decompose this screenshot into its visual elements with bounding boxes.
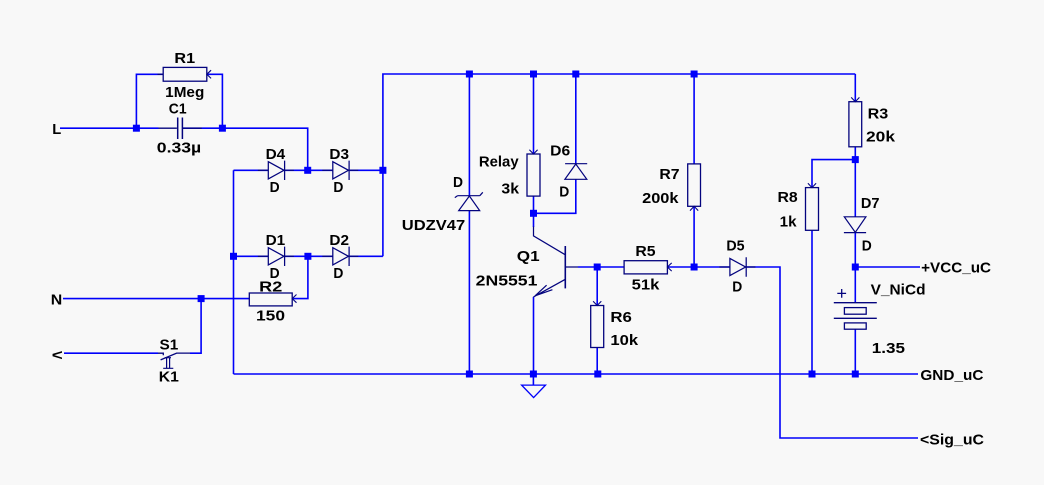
wire D4 anode [234, 169, 269, 171]
svg-text:Relay: Relay [479, 153, 519, 170]
svg-text:<: < [52, 347, 63, 364]
wire D1 anode [234, 255, 269, 257]
node L-R1 left [133, 125, 140, 132]
svg-text:D5: D5 [726, 237, 744, 254]
wire relay bottom [533, 196, 535, 213]
node N-S1 [198, 295, 205, 302]
svg-text:R5: R5 [635, 243, 655, 260]
svg-text:<Sig_uC: <Sig_uC [920, 432, 984, 449]
wire R5 to D5 [667, 266, 730, 268]
relay K1 actuator [163, 358, 173, 369]
wire right vertical and top bus [383, 74, 855, 256]
svg-text:N: N [51, 291, 63, 308]
svg-text:2N5551: 2N5551 [476, 273, 538, 290]
svg-text:R2: R2 [259, 279, 282, 296]
wire N row [63, 298, 249, 300]
svg-text:51k: 51k [632, 276, 661, 293]
wire to R8 top [812, 160, 855, 188]
resistor R6 body [591, 306, 604, 348]
wire collector stub [533, 213, 535, 227]
svg-text:Q1: Q1 [517, 248, 540, 265]
wire R6 top [596, 267, 598, 306]
node gnd R8 [809, 371, 816, 378]
battery V_NiCd [834, 303, 877, 319]
wire R7 bottom [693, 206, 695, 267]
svg-text:200k: 200k [642, 190, 679, 207]
svg-text:10k: 10k [610, 332, 638, 349]
wire GND rail [234, 373, 919, 375]
svg-text:D1: D1 [266, 232, 286, 249]
diode D3 [322, 161, 358, 180]
diode D7 [844, 217, 866, 233]
svg-text:D4: D4 [266, 146, 286, 163]
svg-text:150: 150 [256, 308, 285, 325]
svg-text:D3: D3 [329, 146, 349, 163]
node D4-D3 mid [304, 167, 311, 174]
zener diode D UDZV47 [455, 192, 483, 210]
node D1-D2 mid [304, 253, 311, 260]
transistor Q1 [564, 246, 566, 288]
relay coil Relay 3k body [527, 154, 540, 196]
node bus R7 [691, 71, 698, 78]
wire D4 to D3 [285, 169, 333, 171]
svg-text:1.35: 1.35 [872, 340, 905, 357]
wire D7 to VCC node [854, 233, 856, 268]
node gnd emitter [530, 371, 537, 378]
svg-text:D7: D7 [861, 195, 880, 212]
node gnd zener [466, 371, 473, 378]
svg-text:C1: C1 [169, 101, 187, 118]
svg-text:V_NiCd: V_NiCd [871, 281, 926, 298]
svg-text:R1: R1 [174, 50, 195, 67]
wire R3 bottom to D7 [854, 147, 856, 217]
node bus D6 [572, 71, 579, 78]
resistor R3 arrow [851, 97, 859, 101]
node C1-R1 right [219, 125, 226, 132]
svg-text:D: D [270, 179, 280, 196]
resistor R1 body [163, 67, 207, 81]
node R3-R8-D7 [852, 156, 859, 163]
resistor R5 arrow [667, 263, 671, 271]
wire L row left [60, 127, 159, 129]
resistor R5 body [624, 261, 667, 274]
wire D6 bottom to collector node [534, 179, 576, 213]
svg-text:20k: 20k [866, 128, 896, 145]
svg-text:0.33µ: 0.33µ [157, 140, 201, 157]
node bus zener [466, 71, 473, 78]
ground [522, 385, 546, 398]
svg-text:D: D [453, 174, 463, 191]
svg-text:D2: D2 [329, 232, 349, 249]
node gnd R6 [594, 371, 601, 378]
resistor R8 arrow [808, 183, 816, 187]
resistor R6 arrow [593, 301, 601, 305]
diode D1 [258, 247, 294, 266]
wire L row right to D4 junction [183, 128, 308, 170]
node D3 out [379, 167, 386, 174]
diode D2 [322, 247, 358, 266]
wire R6 bottom [596, 348, 598, 375]
wire zener top [468, 74, 470, 196]
wire battery bottom [854, 329, 856, 374]
node gnd battery [852, 371, 859, 378]
wire VCC out [855, 266, 920, 268]
wire D2 to right vertical [350, 255, 383, 257]
svg-text:D: D [732, 279, 742, 296]
resistor R2 body [249, 293, 292, 306]
svg-text:D: D [333, 265, 343, 282]
resistor R7 arrow [690, 206, 698, 210]
wire R3 top [854, 74, 856, 102]
wire base to R5 node [578, 266, 624, 268]
wire D1 to D2 [285, 255, 333, 257]
node R5-D5-R7 [691, 264, 698, 271]
resistor R3 body [849, 102, 862, 147]
wire R1 left loop [136, 74, 163, 128]
svg-text:UDZV47: UDZV47 [402, 217, 465, 234]
wire D6 top [575, 74, 577, 164]
resistor R7 body [688, 164, 701, 206]
svg-text:R6: R6 [610, 309, 632, 326]
wire R1 right loop [207, 74, 223, 128]
wire switch left [64, 352, 158, 354]
svg-text:L: L [52, 121, 61, 138]
wire D5 to Sig [745, 267, 918, 438]
svg-text:R7: R7 [659, 166, 679, 183]
resistor R2 arrow [292, 295, 296, 303]
diode D5 [719, 257, 755, 276]
svg-text:D: D [559, 183, 569, 200]
relay coil arrow [529, 150, 537, 154]
svg-text:1k: 1k [780, 213, 798, 230]
wire R2 to D1-D2 node [292, 256, 308, 298]
resistor R8 body [806, 188, 819, 231]
wire zener bottom [468, 211, 470, 374]
wire R7 top [693, 74, 695, 164]
wire left vertical rail [233, 170, 235, 374]
wire emitter down [533, 297, 535, 374]
svg-text:D: D [862, 238, 872, 255]
svg-text:S1: S1 [160, 337, 179, 354]
svg-text:K1: K1 [159, 369, 179, 386]
svg-text:1Meg: 1Meg [165, 84, 204, 101]
diode D6 [565, 164, 587, 180]
svg-text:+VCC_uC: +VCC_uC [921, 259, 991, 276]
wire D3 to right vertical [350, 169, 383, 171]
svg-text:R8: R8 [778, 189, 798, 206]
node base R5 R6 [594, 264, 601, 271]
resistor R1 leads [158, 73, 164, 75]
svg-text:GND_uC: GND_uC [920, 367, 983, 384]
diode D4 [258, 161, 294, 180]
node collector [530, 210, 537, 217]
capacitor C1 [159, 127, 202, 129]
svg-text:D: D [333, 179, 343, 196]
node D1 anode [230, 253, 237, 260]
wire ground stub [532, 374, 534, 385]
wire switch right to N [190, 299, 201, 354]
node bus relay [530, 71, 537, 78]
svg-text:D6: D6 [550, 142, 570, 159]
svg-text:3k: 3k [501, 180, 519, 197]
switch S1 blade [158, 353, 190, 360]
wire relay top [533, 74, 535, 154]
node VCC [852, 264, 859, 271]
svg-text:R3: R3 [868, 105, 889, 122]
wire R8 bottom [811, 230, 813, 374]
wire battery top [854, 267, 856, 303]
resistor R1 arrow [207, 70, 211, 78]
